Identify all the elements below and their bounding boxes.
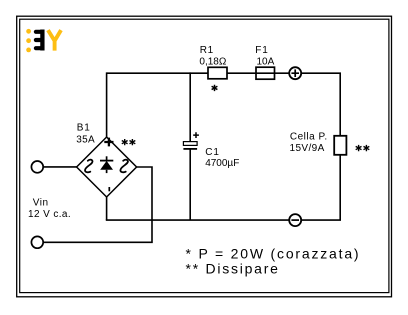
terminal Vin bottom [31, 236, 43, 248]
svg-text:Vin: Vin [33, 197, 49, 208]
wire bridge - down [106, 197, 108, 220]
svg-text:** Dissipare: ** Dissipare [186, 261, 280, 277]
svg-text:35A: 35A [76, 135, 95, 146]
logo [26, 29, 61, 52]
label F1 10A [255, 45, 274, 68]
svg-text:15V/9A: 15V/9A [290, 143, 325, 154]
svg-text:C1: C1 [205, 147, 219, 158]
svg-text:F1: F1 [255, 45, 269, 56]
wire bridge + up to rail [106, 72, 108, 137]
note ** at bridge [122, 139, 136, 145]
svg-text:* P = 20W (corazzata): * P = 20W (corazzata) [186, 245, 361, 261]
bridge rectifier B1 [77, 137, 137, 197]
load Cella P. [334, 136, 346, 155]
note ** at load [356, 145, 370, 151]
wire bottom rail (bridge - to output -) [106, 219, 289, 221]
note annotations [186, 245, 361, 276]
wire top rail (bridge + to output +) [107, 72, 289, 74]
note * at R1 [212, 85, 218, 91]
wire output + to load top [301, 73, 340, 136]
wire load bottom to output - [301, 155, 340, 220]
svg-text:4700µF: 4700µF [205, 158, 239, 169]
svg-text:Cella P.: Cella P. [290, 131, 328, 142]
svg-text:0,18Ω: 0,18Ω [199, 56, 226, 67]
label C1 4700µF [205, 147, 239, 169]
svg-text:12 V c.a.: 12 V c.a. [28, 209, 71, 220]
svg-text:B1: B1 [77, 123, 91, 134]
capacitor C1 [183, 132, 199, 149]
label R1 0,18Ω [199, 45, 226, 68]
label Cella P. 15V/9A [290, 131, 328, 154]
svg-text:10A: 10A [257, 56, 275, 67]
wire Vin top terminal to bridge ~ left [43, 166, 77, 168]
terminal Vin top [31, 161, 43, 173]
terminal output + [289, 67, 301, 79]
wire bridge ~ right to Vin bottom terminal [43, 167, 152, 242]
wire C1 top branch [189, 72, 191, 141]
wire C1 bottom branch [189, 149, 191, 220]
fuse F1 [256, 67, 275, 79]
terminal output - [289, 214, 301, 226]
label Vin 12 V c.a. [28, 197, 71, 219]
label B1 35A [76, 123, 95, 146]
svg-text:R1: R1 [200, 45, 214, 56]
resistor R1 [208, 67, 227, 79]
